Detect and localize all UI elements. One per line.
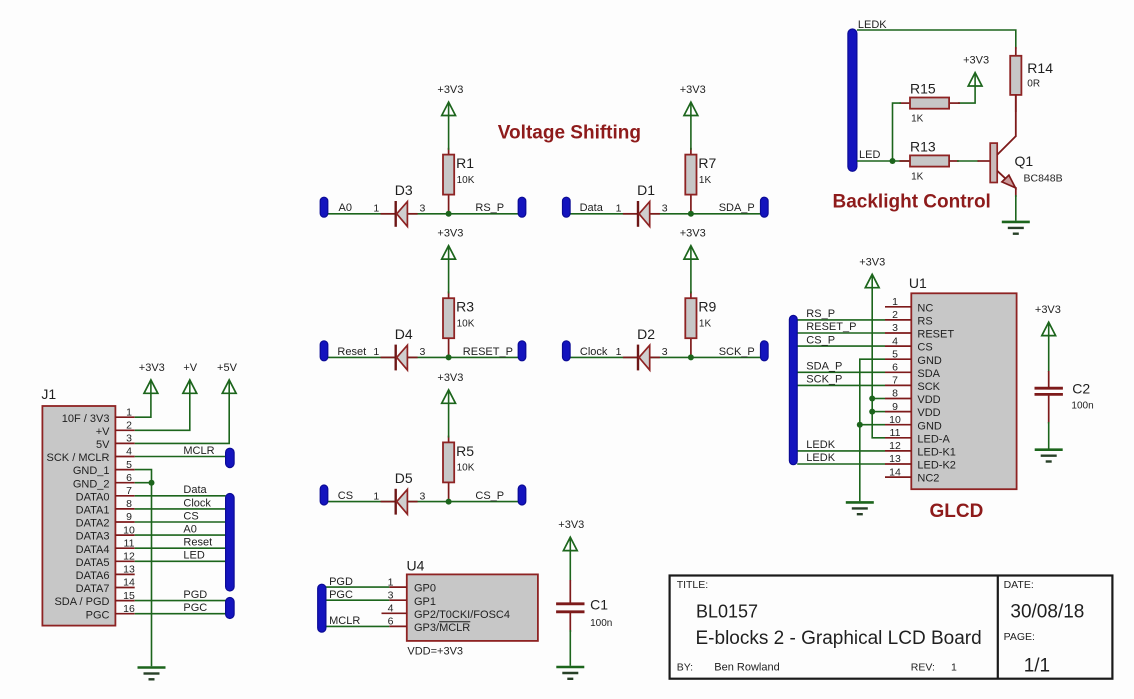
svg-text:RESET: RESET — [917, 329, 954, 341]
svg-text:R9: R9 — [698, 299, 716, 315]
svg-text:LEDK: LEDK — [806, 439, 835, 451]
svg-text:3: 3 — [662, 346, 668, 358]
wire SCK_P to U1 pin7 — [797, 384, 885, 386]
node CS label — [338, 490, 353, 502]
svg-text:1/1: 1/1 — [1024, 656, 1050, 677]
J1 pin stubs — [115, 417, 134, 614]
svg-text:SCK: SCK — [917, 381, 940, 393]
node MCLR label (U4) — [329, 615, 360, 627]
power +5V (J1) — [217, 362, 238, 393]
svg-text:GND_2: GND_2 — [73, 478, 110, 490]
svg-text:1K: 1K — [699, 175, 712, 186]
power +3V3 (R9) — [680, 228, 706, 259]
power +3V3 (R3) — [437, 228, 463, 259]
ground (Q1) — [1002, 222, 1030, 234]
wire +3V3 to R15 — [958, 86, 975, 103]
svg-text:VDD=+3V3: VDD=+3V3 — [407, 646, 463, 658]
svg-text:VDD: VDD — [917, 407, 940, 419]
svg-text:DATA6: DATA6 — [76, 570, 110, 582]
resistor R1 — [443, 148, 475, 195]
resistor R14 — [1010, 47, 1053, 112]
svg-text:SDA / PGD: SDA / PGD — [54, 596, 109, 608]
U1 pin stubs — [885, 307, 911, 477]
svg-text:DATA4: DATA4 — [76, 544, 110, 556]
wire +3V3 to R7 — [690, 116, 692, 150]
svg-text:+3V3: +3V3 — [963, 55, 989, 67]
wire C1 to ground — [569, 630, 571, 666]
svg-text:J1: J1 — [41, 386, 56, 402]
node LEDK label (top) — [858, 19, 887, 31]
node CS_P label — [475, 490, 504, 502]
svg-text:+5V: +5V — [217, 362, 238, 374]
svg-text:1: 1 — [373, 490, 379, 502]
svg-text:GLCD: GLCD — [930, 501, 984, 522]
svg-text:CS: CS — [917, 342, 932, 354]
junction LED node — [890, 158, 896, 164]
svg-text:GP0: GP0 — [414, 583, 436, 595]
junction node SDA_P — [688, 211, 694, 217]
junction node RS_P — [446, 211, 452, 217]
wire PGD to U4 — [325, 586, 389, 588]
svg-text:DATE:: DATE: — [1004, 579, 1034, 591]
wire R7 to node — [690, 194, 692, 214]
svg-text:3: 3 — [419, 346, 425, 358]
node Reset label (J1) — [183, 537, 212, 549]
svg-text:LED-A: LED-A — [917, 433, 950, 445]
svg-text:D2: D2 — [637, 326, 655, 342]
node PGD label (U4) — [329, 576, 353, 588]
wire +3V3 to U1 VDD — [872, 288, 885, 438]
connector J1 — [41, 386, 115, 626]
resistor R3 — [443, 291, 475, 338]
svg-text:C2: C2 — [1072, 381, 1090, 397]
junction U1 VDD pin9 — [869, 409, 875, 415]
wire J1 PGD — [135, 600, 226, 602]
node CS label (J1) — [183, 510, 198, 522]
svg-text:D4: D4 — [395, 326, 413, 342]
wire J1 Reset — [135, 547, 226, 549]
power +V (J1) — [183, 362, 198, 393]
node Data label — [580, 202, 604, 214]
terminal CS_P — [518, 485, 526, 505]
svg-text:SCK_P: SCK_P — [719, 346, 755, 358]
svg-text:SDA_P: SDA_P — [806, 361, 842, 373]
U1 pin numbers — [889, 296, 901, 478]
terminal J1 PGD/PGC — [226, 598, 235, 619]
svg-text:10F / 3V3: 10F / 3V3 — [62, 413, 110, 425]
svg-text:+3V3: +3V3 — [558, 519, 584, 531]
svg-text:100n: 100n — [1071, 401, 1093, 412]
power +3V3 (R7) — [680, 84, 706, 115]
resistor R5 — [443, 436, 475, 483]
node SDA_P label — [719, 202, 755, 214]
wire R1 to node — [448, 194, 450, 214]
svg-text:GND_1: GND_1 — [73, 465, 110, 477]
svg-text:RESET_P: RESET_P — [806, 321, 856, 333]
diode D2 — [616, 326, 668, 371]
wire PGC to U4 — [325, 599, 389, 601]
svg-text:D5: D5 — [395, 470, 413, 486]
terminal U1 bus — [789, 315, 797, 464]
svg-text:MCLR: MCLR — [329, 615, 360, 627]
wire U1 GND to ground — [860, 359, 885, 501]
svg-text:1: 1 — [616, 346, 622, 358]
capacitor C1 — [556, 580, 612, 632]
svg-text:Backlight Control: Backlight Control — [833, 192, 991, 213]
diode D3 — [373, 182, 425, 227]
terminal SCK_P — [761, 341, 769, 361]
wire Data to D1 — [570, 213, 637, 215]
wire J1 A0 — [135, 534, 226, 536]
wire LEDK to U1 pin12 — [797, 450, 885, 452]
J1 pin numbers — [123, 406, 135, 615]
svg-text:PGC: PGC — [86, 609, 110, 621]
svg-text:DATA5: DATA5 — [76, 557, 110, 569]
resistor R9 — [685, 291, 716, 338]
resistor R15 — [900, 81, 961, 125]
svg-text:Reset: Reset — [183, 537, 212, 549]
svg-text:1K: 1K — [699, 319, 712, 330]
svg-text:10K: 10K — [457, 175, 475, 186]
terminal Data — [563, 197, 571, 217]
node Clock label (J1) — [183, 497, 211, 509]
svg-text:R15: R15 — [910, 81, 936, 97]
J1 pin names — [47, 413, 111, 622]
svg-text:DATA7: DATA7 — [76, 583, 110, 595]
wire J1 pin1 to +3V3 — [135, 394, 151, 418]
wire R3 to node — [448, 337, 450, 357]
svg-text:LED-K2: LED-K2 — [917, 460, 956, 472]
svg-text:RS_P: RS_P — [475, 202, 504, 214]
node LEDK label (U1 pin12) — [806, 439, 835, 451]
svg-text:E-blocks 2 - Graphical LCD Boa: E-blocks 2 - Graphical LCD Board — [696, 628, 982, 649]
power +3V3 (U1) — [859, 256, 885, 287]
node LEDK label (U1 pin13) — [806, 452, 835, 464]
svg-text:0R: 0R — [1027, 79, 1040, 90]
svg-text:RS_P: RS_P — [806, 308, 835, 320]
svg-text:CS_P: CS_P — [475, 490, 504, 502]
wire R9 to node — [690, 337, 692, 357]
svg-text:BY:: BY: — [677, 662, 693, 674]
svg-text:10K: 10K — [457, 319, 475, 330]
svg-text:Clock: Clock — [183, 497, 211, 509]
terminal A0 — [320, 197, 328, 217]
wire Clock to D2 — [570, 356, 637, 358]
transistor Q1 — [978, 95, 1063, 197]
wire J1 PGC — [135, 613, 226, 615]
svg-text:1: 1 — [616, 203, 622, 215]
svg-text:R7: R7 — [698, 155, 716, 171]
svg-text:GND: GND — [917, 355, 942, 367]
wire J1 pin5-pin6 to ground — [135, 470, 152, 667]
svg-text:NC: NC — [917, 302, 933, 314]
svg-text:+3V3: +3V3 — [859, 256, 885, 268]
heading Voltage Shifting — [498, 123, 641, 144]
svg-text:SDA_P: SDA_P — [719, 202, 755, 214]
svg-text:BC848B: BC848B — [1024, 173, 1063, 185]
U4 pin stubs — [382, 587, 407, 626]
wire D5 to CS_P — [407, 501, 518, 503]
junction J1 pin6 — [149, 480, 155, 486]
svg-text:Data: Data — [183, 484, 207, 496]
node PGC label (U4) — [329, 589, 353, 601]
IC U4 — [407, 558, 538, 641]
wire J1 pin3 to +5V — [135, 394, 230, 444]
svg-text:PGC: PGC — [329, 589, 353, 601]
wire D1 to SDA_P — [650, 213, 761, 215]
capacitor C2 — [1035, 371, 1094, 424]
svg-text:GP3/MCLR: GP3/MCLR — [414, 622, 470, 634]
terminal U4 PGD/PGC/MCLR — [318, 584, 326, 632]
svg-text:+3V3: +3V3 — [437, 228, 463, 240]
junction node CS_P — [446, 499, 452, 505]
wire LEDK to R14 — [857, 30, 1016, 49]
svg-text:R3: R3 — [456, 299, 474, 315]
svg-text:+3V3: +3V3 — [437, 372, 463, 384]
ground (C2) — [1035, 450, 1063, 462]
wire +3V3 to C1 — [569, 551, 571, 581]
svg-text:CS: CS — [338, 490, 353, 502]
svg-text:Clock: Clock — [580, 346, 608, 358]
wire Reset to D4 — [328, 356, 395, 358]
svg-text:U4: U4 — [407, 558, 425, 574]
wire +3V3 to C2 — [1048, 336, 1050, 373]
terminal LEDK bus — [848, 29, 857, 171]
junction node SCK_P — [688, 354, 694, 360]
node MCLR label — [183, 445, 214, 457]
wire D4 to RESET_P — [407, 356, 518, 358]
svg-text:DATA2: DATA2 — [76, 518, 110, 530]
svg-text:U1: U1 — [909, 275, 927, 291]
svg-text:1: 1 — [373, 346, 379, 358]
svg-text:3: 3 — [419, 490, 425, 502]
svg-text:+3V3: +3V3 — [680, 84, 706, 96]
wire C2 to ground — [1048, 422, 1050, 449]
svg-text:PGC: PGC — [183, 602, 207, 614]
terminal Clock — [563, 341, 571, 361]
svg-text:3: 3 — [662, 203, 668, 215]
resistor R13 — [900, 139, 959, 183]
svg-text:1K: 1K — [911, 114, 924, 125]
wire A0 to D3 — [328, 213, 395, 215]
svg-text:VDD: VDD — [917, 394, 940, 406]
terminal MCLR — [226, 448, 235, 467]
svg-text:RS: RS — [917, 316, 932, 328]
svg-text:R13: R13 — [910, 139, 936, 155]
svg-text:Q1: Q1 — [1015, 153, 1034, 169]
junction U1 VDD pin8 — [869, 396, 875, 402]
node Data label (J1) — [183, 484, 207, 496]
diode D1 — [616, 182, 668, 227]
power +3V3 (C2) — [1035, 304, 1061, 335]
svg-text:LED: LED — [183, 550, 204, 562]
wire +3V3 to R3 — [448, 259, 450, 293]
svg-text:30/08/18: 30/08/18 — [1010, 602, 1084, 623]
svg-text:100n: 100n — [590, 618, 612, 629]
svg-text:RESET_P: RESET_P — [463, 346, 513, 358]
wire J1 pin2 to +V — [135, 394, 190, 431]
terminal CS — [320, 485, 328, 505]
svg-text:LEDK: LEDK — [806, 452, 835, 464]
ground (C1) — [556, 667, 584, 679]
wire CS to D5 — [328, 501, 395, 503]
power +3V3 (R1) — [437, 84, 463, 115]
svg-text:NC2: NC2 — [917, 473, 939, 485]
svg-text:SCK_P: SCK_P — [806, 374, 842, 386]
wire J1 Clock — [135, 508, 226, 510]
svg-text:PGD: PGD — [329, 576, 353, 588]
svg-text:MCLR: MCLR — [183, 445, 214, 457]
svg-text:DATA1: DATA1 — [76, 505, 110, 517]
svg-text:A0: A0 — [183, 524, 196, 536]
svg-text:1K: 1K — [911, 172, 924, 183]
node CS_P label (U1 pin4) — [806, 334, 835, 346]
power +3V3 (R5) — [437, 372, 463, 403]
wire +3V3 to R9 — [690, 259, 692, 293]
wire LED to R13 — [857, 160, 910, 162]
node Clock label — [580, 346, 608, 358]
wire D3 to RS_P — [407, 213, 518, 215]
wire LEDK to U1 pin13 — [797, 463, 885, 465]
node PGC label (J1) — [183, 602, 207, 614]
wire R5 to node — [448, 482, 450, 502]
svg-text:+3V3: +3V3 — [1035, 304, 1061, 316]
terminal J1 data bus — [226, 494, 235, 592]
junction U1 GND pin10 — [857, 422, 863, 428]
U4 pin numbers — [388, 576, 394, 627]
wire R13 to Q1 base — [957, 160, 979, 162]
wire RS_P to U1 pin2 — [797, 319, 885, 321]
svg-text:DATA0: DATA0 — [76, 491, 110, 503]
svg-text:D3: D3 — [395, 182, 413, 198]
node RESET_P label — [463, 346, 513, 358]
node RESET_P label (U1 pin3) — [806, 321, 856, 333]
wire +3V3 to R5 — [448, 403, 450, 437]
wire SDA_P to U1 pin6 — [797, 371, 885, 373]
svg-text:TITLE:: TITLE: — [677, 579, 709, 591]
svg-text:LED: LED — [859, 149, 880, 161]
ground (J1) — [138, 668, 166, 680]
svg-text:Ben Rowland: Ben Rowland — [714, 662, 779, 674]
wire J1 CS — [135, 521, 226, 523]
power +3V3 (J1) — [139, 362, 165, 393]
node PGD label (J1) — [183, 589, 207, 601]
svg-text:1: 1 — [951, 662, 957, 674]
wire D2 to SCK_P — [650, 356, 761, 358]
terminal RS_P — [518, 197, 526, 217]
IC U1 — [909, 275, 1017, 489]
svg-text:GND: GND — [917, 420, 942, 432]
wire Q1 emitter to ground — [1015, 195, 1017, 221]
svg-text:SCK / MCLR: SCK / MCLR — [47, 452, 110, 464]
junction node RESET_P — [446, 354, 452, 360]
svg-text:CS: CS — [183, 510, 198, 522]
svg-text:+3V3: +3V3 — [680, 228, 706, 240]
svg-text:3: 3 — [419, 203, 425, 215]
ground (U1) — [846, 502, 874, 514]
node SCK_P label (U1 pin7) — [806, 374, 842, 386]
node Reset label — [337, 346, 366, 358]
node SCK_P label — [719, 346, 755, 358]
node A0 label — [339, 202, 352, 214]
wire MCLR to U4 — [325, 625, 389, 627]
node SDA_P label (U1 pin6) — [806, 361, 842, 373]
svg-text:+3V3: +3V3 — [437, 84, 463, 96]
node LED label — [859, 149, 880, 161]
svg-text:R1: R1 — [456, 155, 474, 171]
wire RESET_P to U1 pin3 — [797, 332, 885, 334]
diode D4 — [373, 326, 425, 371]
svg-text:C1: C1 — [590, 597, 608, 613]
wire CS_P to U1 pin4 — [797, 345, 885, 347]
svg-text:Data: Data — [580, 202, 604, 214]
svg-text:R5: R5 — [456, 443, 474, 459]
terminal SDA_P — [761, 197, 769, 217]
svg-text:R14: R14 — [1027, 60, 1053, 76]
svg-text:A0: A0 — [339, 202, 352, 214]
svg-text:CS_P: CS_P — [806, 334, 835, 346]
diode D5 — [373, 470, 425, 515]
wire +3V3 to R1 — [448, 116, 450, 150]
power +3V3 (R15) — [963, 55, 989, 86]
heading Backlight Control — [833, 192, 991, 213]
svg-text:LED-K1: LED-K1 — [917, 447, 956, 459]
svg-text:1: 1 — [373, 203, 379, 215]
svg-text:PGD: PGD — [183, 589, 207, 601]
svg-text:GP2/T0CKI/FOSC4: GP2/T0CKI/FOSC4 — [414, 609, 510, 621]
wire J1 Data — [135, 495, 226, 497]
svg-text:SDA: SDA — [917, 368, 940, 380]
svg-text:+V: +V — [96, 426, 110, 438]
U4 VDD note — [407, 646, 463, 658]
svg-text:+3V3: +3V3 — [139, 362, 165, 374]
wire J1 pin4 MCLR — [135, 456, 227, 458]
wire J1 LED — [135, 560, 226, 562]
svg-text:DATA3: DATA3 — [76, 531, 110, 543]
wire R15 to LED node — [893, 103, 902, 161]
resistor R7 — [685, 148, 716, 195]
U4 pin names — [414, 583, 510, 634]
node RS_P label (U1 pin2) — [806, 308, 835, 320]
svg-text:BL0157: BL0157 — [696, 602, 758, 622]
terminal RESET_P — [518, 341, 526, 361]
svg-text:10K: 10K — [457, 463, 475, 474]
svg-text:Voltage Shifting: Voltage Shifting — [498, 123, 641, 144]
node RS_P label — [475, 202, 504, 214]
svg-text:D1: D1 — [637, 182, 655, 198]
svg-text:GP1: GP1 — [414, 596, 436, 608]
heading GLCD — [930, 501, 984, 522]
terminal Reset — [320, 341, 328, 361]
node LED label (J1) — [183, 550, 204, 562]
U1 pin names — [917, 302, 956, 484]
svg-text:5V: 5V — [96, 439, 110, 451]
svg-text:PAGE:: PAGE: — [1004, 631, 1035, 643]
svg-text:+V: +V — [183, 362, 197, 374]
node A0 label (J1) — [183, 524, 196, 536]
svg-text:Reset: Reset — [337, 346, 366, 358]
power +3V3 (C1) — [558, 519, 584, 550]
title block frame — [670, 576, 1113, 679]
title block texts — [677, 579, 1085, 677]
svg-text:REV:: REV: — [911, 662, 935, 674]
